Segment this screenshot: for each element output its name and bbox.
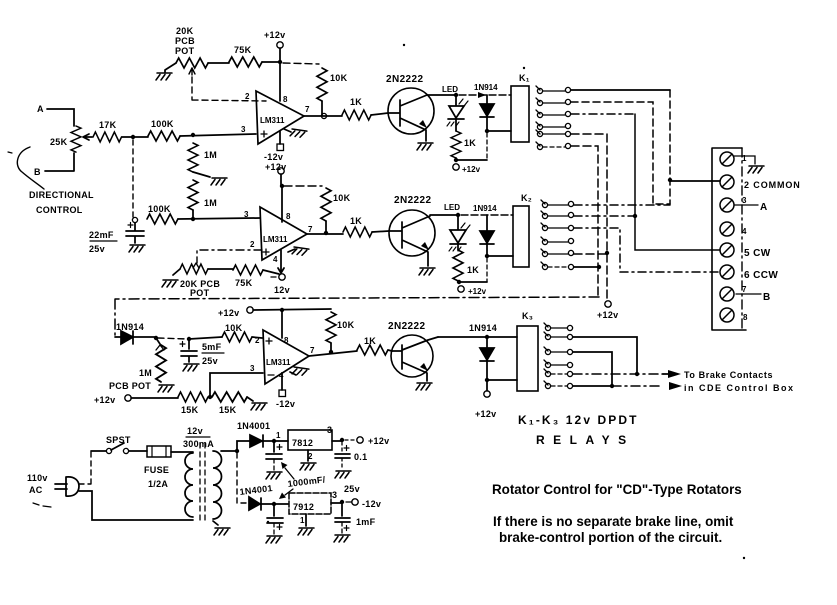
resistor 1K stage2 (343, 227, 372, 237)
resistor 100K (148, 131, 180, 141)
wire K3 row5 brake out (573, 373, 663, 375)
wire to 10K (189, 337, 222, 339)
capacitor 1mF (335, 502, 350, 522)
svg-text:If there is no separate brake: If there is no separate brake line, omit (493, 514, 734, 529)
ground Q1 emitter (417, 143, 433, 150)
svg-text:Rotator Control for "CD"-Type: Rotator Control for "CD"-Type Rotators (492, 482, 742, 497)
svg-text:10K: 10K (330, 73, 348, 83)
svg-text:A: A (37, 104, 44, 114)
resistor 1K brake (357, 345, 388, 355)
svg-text:17K: 17K (99, 120, 117, 130)
wire dash-dot pin2 to pot wiper (197, 250, 262, 263)
svg-text:3: 3 (250, 364, 255, 373)
pin 4 stub -12V (279, 131, 281, 144)
wire to terminal 2 (670, 180, 720, 182)
svg-text:1K: 1K (350, 97, 362, 107)
wire collector Q2 (430, 214, 458, 216)
svg-text:in CDE Control Box: in CDE Control Box (684, 383, 795, 393)
svg-text:POT: POT (190, 288, 210, 298)
svg-text:POT: POT (175, 46, 195, 56)
svg-text:2 COMMON: 2 COMMON (744, 180, 801, 190)
svg-text:1K: 1K (350, 216, 362, 226)
ground (129, 245, 145, 252)
svg-text:-12v: -12v (264, 152, 283, 162)
svg-text:+12v: +12v (468, 287, 487, 296)
svg-text:K₁-K₃ 12v DPDT: K₁-K₃ 12v DPDT (518, 413, 639, 427)
svg-text:1/2A: 1/2A (148, 479, 168, 489)
svg-text:300mA: 300mA (183, 439, 214, 449)
svg-text:25v: 25v (202, 356, 218, 366)
wire output stage2 (307, 233, 343, 235)
svg-text:2N2222: 2N2222 (394, 195, 431, 206)
resistor 100K second (147, 214, 178, 224)
svg-text:+12v: +12v (94, 395, 115, 405)
svg-text:1K: 1K (464, 138, 476, 148)
svg-text:1mF: 1mF (356, 517, 376, 527)
resistor 1K stage1 (342, 110, 371, 120)
svg-text:1M: 1M (139, 368, 152, 378)
svg-text:B: B (34, 167, 41, 177)
wire K2 row5 (574, 253, 607, 255)
svg-text:3: 3 (244, 210, 249, 219)
wire (192, 210, 194, 219)
svg-text:+12v: +12v (265, 162, 286, 172)
wire to comparator 2 input (178, 218, 260, 219)
svg-text:4: 4 (742, 227, 747, 236)
wire (208, 268, 233, 270)
svg-text:A: A (760, 202, 768, 213)
terminal 2 (720, 175, 734, 189)
terminal 6 (720, 265, 734, 279)
ground terminal 1 (748, 166, 764, 173)
capacitor 22mF (126, 223, 144, 243)
svg-text:7812: 7812 (292, 438, 313, 448)
capacitor 1000mF upper (266, 441, 282, 459)
svg-text:5 CW: 5 CW (744, 248, 771, 259)
op-amp U2 LM311 (260, 207, 307, 260)
svg-text:+12v: +12v (218, 308, 239, 318)
svg-text:75K: 75K (234, 45, 252, 55)
svg-text:-12v: -12v (276, 399, 295, 409)
svg-text:7: 7 (305, 105, 310, 114)
relay K3 contacts (544, 323, 573, 389)
terminal 7 (720, 287, 734, 301)
resistor 1K LED1 (451, 131, 461, 158)
pin 1 ground stub (284, 129, 291, 132)
wire to comparator input (180, 134, 256, 136)
svg-text:1000mF/: 1000mF/ (287, 474, 326, 489)
wire to ground (193, 172, 210, 177)
svg-text:100K: 100K (148, 204, 171, 214)
brace directional control (17, 147, 44, 189)
svg-text:2N2222: 2N2222 (386, 74, 423, 85)
svg-text:3: 3 (327, 425, 332, 435)
svg-text:10K: 10K (333, 193, 351, 203)
wire (122, 136, 148, 138)
svg-text:8: 8 (286, 212, 291, 221)
svg-text:2: 2 (245, 92, 250, 101)
wire dashed to 10K (283, 63, 319, 64)
wire collector (427, 94, 456, 96)
svg-text:25K: 25K (50, 137, 68, 147)
wire K2 row2 (574, 215, 635, 217)
svg-text:2: 2 (255, 336, 260, 345)
svg-text:+12v: +12v (475, 409, 496, 419)
svg-text:12v: 12v (187, 426, 203, 436)
svg-text:2: 2 (250, 240, 255, 249)
wire dashed vertical from first stage divider (132, 140, 134, 217)
node junction (131, 135, 135, 139)
terminal 4 (720, 222, 734, 236)
svg-text:LED: LED (444, 203, 460, 212)
wire K3 row3 (573, 352, 612, 386)
svg-text:K₂: K₂ (521, 193, 532, 203)
wire secondary to diode (221, 450, 237, 452)
svg-text:1M: 1M (204, 198, 217, 208)
svg-text:To Brake Contacts: To Brake Contacts (684, 370, 773, 380)
wire (262, 61, 280, 63)
relay K1 contacts (536, 86, 571, 150)
resistor 1M lower (188, 180, 198, 210)
wire (208, 62, 229, 64)
potentiometer 20K PCB (176, 58, 208, 68)
wire to 10K stage2 (284, 185, 322, 187)
capacitor 0.1 (341, 442, 343, 452)
wire plug to switch (79, 451, 91, 484)
svg-text:1: 1 (300, 516, 305, 525)
ground (211, 178, 227, 185)
resistor 10K pullup 2 (321, 188, 331, 221)
terminal 5 (720, 243, 734, 257)
wire output brake (309, 351, 357, 356)
svg-text:1N914: 1N914 (474, 83, 498, 92)
svg-text:8: 8 (283, 95, 288, 104)
svg-text:1: 1 (276, 431, 281, 440)
svg-text:7: 7 (308, 225, 313, 234)
wire K3 row2 (573, 337, 637, 374)
relay K2 contacts (541, 200, 574, 270)
svg-text:+12v: +12v (264, 30, 285, 40)
capacitor 5mF (181, 339, 197, 362)
wire K1 row1 to common (571, 89, 670, 91)
potentiometer 1M PCB (156, 338, 160, 344)
svg-text:1: 1 (742, 154, 747, 163)
resistor 10K pullup brake (326, 312, 336, 343)
svg-text:1N4001: 1N4001 (237, 421, 270, 431)
svg-text:LM311: LM311 (263, 235, 288, 244)
potentiometer 20K PCB 2 (180, 264, 208, 274)
pin1 ground stub (288, 249, 295, 252)
svg-text:1N4001: 1N4001 (239, 483, 273, 497)
svg-text:-12v: -12v (362, 499, 381, 509)
wire K3 row6 brake out (573, 385, 612, 387)
svg-text:brake-control portion of the c: brake-control portion of the circuit. (499, 530, 722, 545)
svg-text:7912: 7912 (293, 502, 314, 512)
svg-text:+12v: +12v (462, 165, 481, 174)
svg-text:8: 8 (284, 336, 289, 345)
svg-text:3: 3 (241, 125, 246, 134)
wire dashed from pot wiper to pin 2 (192, 77, 266, 101)
regulator 7912 (289, 493, 331, 514)
fuse (147, 446, 171, 457)
pin 4 -12V (281, 374, 283, 390)
svg-text:15K: 15K (181, 405, 199, 415)
wire to cap (158, 338, 188, 339)
svg-text:LM311: LM311 (266, 358, 291, 367)
svg-text:AC: AC (29, 485, 43, 495)
svg-text:K₃: K₃ (522, 311, 533, 321)
wire K2 row1 to common U (574, 204, 670, 206)
resistor 10K brake input (222, 332, 252, 342)
svg-text:1N914: 1N914 (469, 323, 497, 333)
svg-text:SPST: SPST (106, 435, 131, 445)
svg-text:+12v: +12v (368, 436, 389, 446)
svg-text:1K: 1K (364, 336, 376, 346)
svg-text:10K: 10K (225, 323, 243, 333)
svg-text:LM311: LM311 (260, 116, 285, 125)
wire K1 row3 to CW (571, 113, 635, 115)
terminal 8 (720, 308, 734, 322)
svg-text:110v: 110v (27, 473, 48, 483)
svg-text:25v: 25v (344, 484, 360, 494)
svg-text:B: B (763, 292, 771, 303)
node open terminal (132, 217, 137, 222)
svg-text:10K: 10K (337, 320, 355, 330)
svg-text:FUSE: FUSE (144, 465, 169, 475)
svg-text:100K: 100K (151, 119, 174, 129)
wire output stage1 (304, 115, 342, 117)
terminal 1 (720, 152, 734, 166)
svg-text:PCB: PCB (175, 36, 195, 46)
ground (165, 63, 176, 72)
svg-text:LED: LED (442, 85, 458, 94)
op-amp U1 LM311 (256, 91, 304, 144)
resistor 17K (93, 132, 122, 142)
svg-text:K₁: K₁ (519, 73, 530, 83)
svg-text:1K: 1K (467, 265, 479, 275)
svg-text:7: 7 (310, 346, 315, 355)
terminal 3 (720, 198, 734, 212)
svg-text:+12v: +12v (597, 310, 618, 320)
svg-text:22mF: 22mF (89, 230, 114, 240)
svg-text:75K: 75K (235, 278, 253, 288)
svg-text:12v: 12v (274, 285, 290, 295)
svg-text:2N2222: 2N2222 (388, 321, 425, 332)
svg-text:1M: 1M (204, 150, 217, 160)
svg-text:25v: 25v (89, 244, 105, 254)
svg-text:DIRECTIONAL: DIRECTIONAL (29, 190, 94, 200)
resistor 1K LED2 (453, 250, 463, 281)
svg-text:20K: 20K (176, 26, 194, 36)
resistor 10K pullup 1 (317, 68, 327, 101)
op-amp U3 LM311 (263, 330, 309, 384)
wire B to pot (45, 153, 74, 171)
svg-text:3: 3 (742, 196, 747, 205)
wire primary bottom to plug (79, 491, 193, 520)
wire K2 row3 to CCW (574, 228, 720, 272)
regulator 7812 (288, 430, 332, 450)
wire long brake dash-dot line (115, 297, 599, 336)
svg-text:0.1: 0.1 (354, 452, 367, 462)
svg-text:PCB POT: PCB POT (109, 381, 151, 391)
wire K1 row6 to brake line (571, 146, 598, 296)
svg-text:RELAYS: RELAYS (536, 433, 635, 447)
wire A to pot (47, 109, 74, 126)
potentiometer 25K directional (71, 126, 81, 152)
wire +12V down to pin 8 (279, 62, 281, 101)
svg-text:4: 4 (273, 255, 278, 264)
wire K1 row2 (571, 102, 670, 204)
svg-text:7: 7 (742, 285, 747, 294)
svg-text:3: 3 (332, 490, 337, 500)
svg-text:8: 8 (743, 313, 748, 322)
capacitor 1000mF lower (267, 504, 283, 523)
resistor 75K (229, 57, 262, 67)
svg-text:1N914: 1N914 (473, 204, 497, 213)
resistor 1M upper (188, 143, 198, 172)
wire feedback to pin minus (210, 373, 263, 397)
wire K2 row6 (574, 266, 599, 268)
svg-text:CONTROL: CONTROL (36, 205, 83, 215)
node junction (191, 217, 195, 221)
svg-text:15K: 15K (219, 405, 237, 415)
wire collector Q3 to relay K3 (438, 336, 517, 338)
resistor 75K stage2 (233, 265, 263, 275)
svg-text:6 CCW: 6 CCW (744, 270, 778, 281)
terminal strip (712, 148, 746, 330)
pin1 ground (290, 372, 296, 375)
wire K1 row5 to +12v (571, 134, 607, 300)
svg-text:5mF: 5mF (202, 342, 222, 352)
